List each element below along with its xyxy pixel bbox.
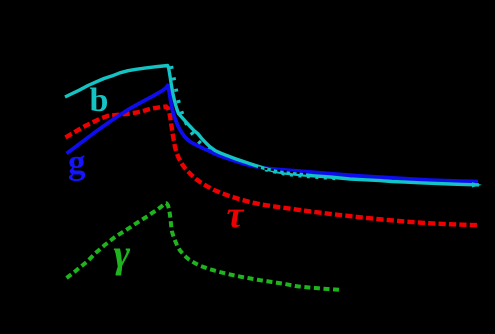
curve g (blue solid)	[67, 85, 479, 181]
curve tau (red dashed)	[66, 107, 480, 226]
svg-text:g: g	[68, 143, 86, 182]
svg-text:τ: τ	[227, 194, 245, 236]
svg-text:b: b	[90, 82, 109, 119]
black dotted occluder between g and b tails	[258, 168, 308, 174]
svg-text:γ: γ	[114, 231, 131, 276]
cyan dashed tick curve (descends right of solid b curve, re-emerges under tail)	[171, 66, 214, 154]
arrow tip at end of b curve	[472, 182, 482, 187]
curve gamma (green dashed)	[67, 203, 340, 289]
curve b (cyan solid)	[65, 66, 479, 185]
